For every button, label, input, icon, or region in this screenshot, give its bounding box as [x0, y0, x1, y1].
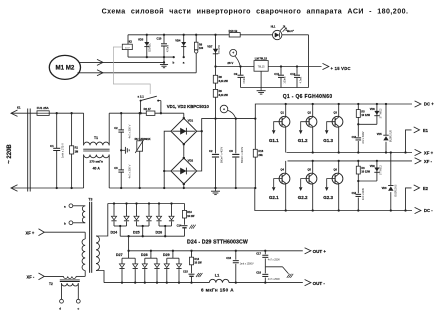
- terminal a: [183, 56, 185, 58]
- wire aux rail: [128, 34, 229, 36]
- svg-text:C9: C9: [234, 72, 238, 76]
- wire VD1 to VD2: [183, 144, 185, 158]
- svg-text:28 V: 28 V: [227, 61, 233, 65]
- svg-text:b: b: [173, 61, 175, 65]
- wire rectifier row2 top: [129, 250, 303, 252]
- wire rectifier row1 top: [108, 203, 185, 205]
- svg-text:R14: R14: [194, 258, 199, 261]
- net E1: [406, 130, 412, 153]
- svg-text:C2: C2: [209, 149, 213, 153]
- svg-text:BU2R10US: BU2R10US: [395, 184, 397, 196]
- test point DC plus: [220, 105, 228, 113]
- svg-text:VD9: VD9: [370, 165, 375, 168]
- svg-text:R1: R1: [75, 146, 79, 150]
- capacitor C12: [296, 65, 298, 67]
- resistor R8 8.2k: [213, 75, 217, 83]
- svg-text:OUT +: OUT +: [313, 249, 327, 254]
- +15VDC output: [323, 63, 329, 69]
- svg-text:T3: T3: [88, 198, 92, 202]
- svg-text:C16: C16: [226, 256, 231, 260]
- svg-text:100: 100: [199, 47, 204, 50]
- wire rectifier mid: [120, 235, 184, 237]
- svg-text:C12: C12: [290, 72, 295, 76]
- diode VD6 clamp: [390, 151, 392, 153]
- svg-text:XF -: XF -: [27, 275, 35, 280]
- svg-text:10 2W: 10 2W: [194, 262, 202, 265]
- svg-text:2n2 x 630V: 2n2 x 630V: [362, 188, 365, 201]
- net XF plus right: [415, 149, 421, 155]
- mains input arrow bottom: [11, 187, 30, 189]
- svg-text:М1 М2: М1 М2: [55, 65, 74, 72]
- svg-text:C8: C8: [229, 149, 233, 153]
- svg-text:~ 220В: ~ 220В: [7, 144, 13, 164]
- svg-text:C10: C10: [157, 37, 162, 41]
- svg-text:Схема силовой части инверторно: Схема силовой части инверторного сварочн…: [102, 8, 409, 16]
- wire 28V line: [214, 65, 216, 67]
- wire bottom bus: [109, 187, 255, 189]
- wire mains to bridge: [109, 112, 146, 114]
- svg-text:G2.3: G2.3: [323, 195, 333, 200]
- svg-text:470mk: 470mk: [167, 44, 170, 52]
- svg-text:Q1 - Q6 FGH40N60: Q1 - Q6 FGH40N60: [283, 94, 333, 100]
- svg-text:C2: C2: [114, 126, 118, 130]
- svg-text:STTH812: STTH812: [381, 108, 383, 119]
- net E2: [406, 188, 412, 211]
- svg-text:20k: 20k: [258, 153, 263, 157]
- wire top mains: [30, 112, 83, 114]
- capacitor C2: [120, 112, 122, 114]
- svg-text:T1: T1: [94, 136, 98, 140]
- rectifier diode col4: [148, 202, 150, 204]
- bridge rectifier VD2: [171, 158, 197, 184]
- capacitor C16: [235, 250, 237, 252]
- transistor Q5: [312, 161, 314, 174]
- terminal b: [173, 56, 175, 58]
- svg-text:C15: C15: [183, 270, 188, 274]
- resistor R14 10 2W: [190, 250, 192, 252]
- svg-text:G1.2: G1.2: [298, 138, 308, 143]
- rectifier diode col6: [170, 202, 172, 204]
- wire XF plus rail: [287, 152, 413, 154]
- earth sideways: [120, 149, 122, 151]
- svg-text:OUT -: OUT -: [313, 281, 326, 286]
- svg-text:+: +: [232, 51, 234, 55]
- resistor R6 10 12W: [357, 160, 359, 162]
- svg-text:G2.2: G2.2: [298, 195, 308, 200]
- svg-text:b: b: [64, 222, 66, 226]
- svg-text:+ 15 VDC: + 15 VDC: [331, 66, 351, 71]
- T3 secondary winding: [96, 236, 99, 271]
- svg-text:10 12W: 10 12W: [361, 171, 370, 174]
- resistor R13 1k: [229, 33, 240, 37]
- svg-text:G1.1: G1.1: [269, 138, 279, 143]
- fuse FU1: [37, 111, 49, 116]
- breaker K1 double line: [27, 109, 29, 192]
- capacitor C8 bus: [235, 117, 237, 119]
- wire bridge DC plus: [197, 119, 256, 132]
- rectifier diode col1: [113, 202, 115, 204]
- relay K2 coil: [127, 35, 129, 44]
- resistor R2 47: [146, 111, 155, 115]
- svg-text:C14: C14: [177, 224, 182, 228]
- svg-text:L1: L1: [215, 274, 219, 278]
- wire DC minus drop: [255, 188, 412, 211]
- transistor Q2: [312, 103, 314, 105]
- wire bottom mains: [30, 187, 83, 189]
- resistor R5 10 12W: [357, 103, 359, 105]
- svg-text:VD7: VD7: [207, 45, 213, 49]
- svg-text:XF +: XF +: [26, 230, 35, 235]
- svg-text:d: d: [59, 307, 61, 311]
- svg-text:4,7mk: 4,7mk: [300, 76, 303, 83]
- bridge rectifier VD1: [183, 113, 185, 118]
- svg-text:40 А: 40 А: [93, 166, 101, 170]
- rectifier pair D28: [150, 250, 152, 252]
- svg-text:2n2 x 630V: 2n2 x 630V: [362, 131, 365, 144]
- rectifier pair D29: [172, 250, 174, 252]
- ground primary: [214, 187, 216, 189]
- motor M1 M2: [49, 55, 80, 79]
- net XF minus right: [415, 158, 421, 164]
- svg-text:1mk x 275 V: 1mk x 275 V: [61, 143, 65, 158]
- wire snubber node 1: [358, 123, 377, 125]
- diode VD7: [214, 34, 216, 36]
- rectifier pair D27: [127, 250, 129, 252]
- ground regulator: [241, 87, 309, 89]
- svg-text:R16: R16: [258, 149, 263, 153]
- svg-text:6 мкГн 150 А: 6 мкГн 150 А: [201, 287, 234, 292]
- svg-text:VD8: VD8: [370, 108, 375, 111]
- wire output bus: [104, 282, 209, 284]
- svg-text:HL1: HL1: [271, 26, 276, 29]
- capacitor C10: [163, 34, 165, 36]
- rectifier diode col5: [158, 202, 160, 204]
- inductor L1: [209, 279, 229, 282]
- svg-text:D24 - D29 STTH6003CW: D24 - D29 STTH6003CW: [187, 240, 248, 246]
- svg-text:К2: К2: [129, 39, 133, 43]
- svg-text:RU 14D391K: RU 14D391K: [135, 137, 151, 141]
- resistor R9 8.2k: [213, 89, 217, 97]
- svg-text:D24: D24: [111, 231, 118, 235]
- svg-text:D26: D26: [156, 231, 163, 235]
- svg-text:VD1, VD2 KBPC5010: VD1, VD2 KBPC5010: [167, 104, 210, 109]
- svg-text:DC +: DC +: [424, 102, 434, 107]
- chassis mid caps: [265, 266, 282, 268]
- net OUT minus: [305, 280, 311, 286]
- wire XF minus rail: [288, 160, 413, 162]
- svg-text:4n7 x 250 V: 4n7 x 250 V: [127, 124, 131, 138]
- svg-text:DC -: DC -: [424, 208, 433, 213]
- svg-text:BYD255: BYD255: [218, 44, 221, 54]
- wire AC2 to bridges: [164, 131, 171, 188]
- svg-text:VD1: VD1: [188, 119, 194, 123]
- resistor R6: [195, 34, 197, 36]
- svg-text:"Вкл": "Вкл": [286, 29, 295, 33]
- diode VD3: [146, 34, 148, 36]
- svg-text:G2.1: G2.1: [269, 195, 279, 200]
- svg-text:R13 1k: R13 1k: [229, 29, 238, 33]
- wire LED return: [308, 35, 310, 88]
- svg-text:C17: C17: [256, 252, 261, 256]
- wire relay ground: [128, 56, 174, 58]
- svg-text:BZV85C: BZV85C: [149, 43, 152, 52]
- svg-text:D28: D28: [141, 253, 148, 257]
- varistor RU: [139, 112, 141, 114]
- svg-text:8,2k 2W: 8,2k 2W: [219, 80, 229, 83]
- svg-text:C1: C1: [50, 144, 54, 148]
- capacitor C9: [239, 65, 241, 67]
- svg-text:G1.3: G1.3: [323, 138, 333, 143]
- rectifier diode col3: [135, 202, 137, 204]
- svg-text:100mk: 100mk: [284, 76, 287, 84]
- svg-text:4n7 x 250 V: 4n7 x 250 V: [127, 164, 131, 178]
- svg-text:4n7 x 250V: 4n7 x 250V: [268, 278, 281, 281]
- capacitor C15 snubber out: [184, 218, 186, 225]
- svg-text:R2 47: R2 47: [144, 107, 152, 111]
- svg-text:T2: T2: [49, 282, 53, 286]
- svg-text:1mk x 1500V: 1mk x 1500V: [240, 262, 254, 265]
- svg-text:VD4: VD4: [175, 38, 181, 42]
- diode VD9: [376, 160, 378, 162]
- svg-text:C18: C18: [256, 271, 261, 275]
- svg-text:D27: D27: [116, 253, 123, 257]
- transistor Q6: [338, 161, 340, 174]
- svg-text:10 2W: 10 2W: [187, 215, 195, 218]
- svg-text:LM 78L15: LM 78L15: [255, 56, 268, 60]
- net OUT plus: [305, 248, 311, 254]
- svg-text:E1: E1: [423, 128, 429, 133]
- svg-text:1M: 1M: [75, 150, 79, 154]
- svg-text:24 V: 24 V: [125, 48, 130, 50]
- test point 28V: [230, 49, 237, 56]
- svg-text:E2: E2: [423, 186, 429, 191]
- capacitor C13 snubber: [357, 124, 359, 137]
- mains input arrow top: [11, 112, 30, 114]
- svg-text:STTH812: STTH812: [381, 164, 383, 175]
- wire VD2 bottom: [183, 184, 185, 188]
- capacitor C2 bus: [214, 117, 216, 119]
- svg-text:560mF x 400V: 560mF x 400V: [221, 147, 224, 164]
- row1 pair joins: [114, 225, 127, 227]
- svg-text:470mk: 470mk: [243, 76, 246, 84]
- resistor R16 20k: [254, 117, 256, 119]
- svg-text:VD5: VD5: [377, 133, 382, 136]
- svg-text:VD6: VD6: [382, 187, 387, 190]
- capacitor C15: [191, 265, 193, 273]
- svg-text:C14: C14: [352, 192, 357, 195]
- resistor R1: [70, 112, 72, 114]
- svg-text:560mF x 400V: 560mF x 400V: [241, 147, 244, 164]
- svg-text:XF +: XF +: [424, 151, 434, 156]
- svg-text:к 2.1: к 2.1: [138, 94, 145, 98]
- wire fan top: [79, 61, 165, 63]
- diode VD8: [376, 103, 378, 105]
- capacitor C17: [264, 250, 266, 252]
- svg-text:VD2: VD2: [188, 159, 194, 163]
- wire snubber node 2: [358, 180, 377, 182]
- capacitor C18: [264, 267, 266, 274]
- net DC plus: [415, 101, 421, 107]
- svg-text:C3: C3: [114, 166, 118, 170]
- transistor Q3: [338, 103, 340, 105]
- svg-text:D29: D29: [163, 253, 170, 257]
- svg-text:XF -: XF -: [424, 159, 433, 164]
- transistor Q4: [285, 161, 287, 174]
- diode VD5 clamp: [385, 103, 387, 105]
- capacitor C14 snubber: [357, 181, 359, 193]
- svg-text:К1: К1: [17, 106, 21, 110]
- transistor Q1: [285, 103, 287, 105]
- T3 aux winding a-b: [69, 204, 73, 208]
- capacitor C1: [56, 112, 58, 114]
- svg-text:10 12W: 10 12W: [361, 114, 370, 117]
- T3 primary winding: [84, 232, 86, 239]
- rectifier diode col2: [125, 202, 127, 204]
- resistor R13 10 2W: [184, 204, 186, 211]
- net DC minus: [415, 207, 421, 213]
- diode VD4: [183, 34, 185, 36]
- svg-text:78L15: 78L15: [258, 65, 266, 68]
- svg-text:C11: C11: [274, 72, 279, 76]
- svg-text:4n7 x 250V: 4n7 x 250V: [268, 259, 281, 262]
- svg-text:8,2k 2W: 8,2k 2W: [219, 94, 229, 97]
- wire DC plus riser: [255, 104, 412, 119]
- capacitor C11: [280, 65, 282, 67]
- svg-text:R13: R13: [187, 211, 192, 214]
- svg-text:+: +: [223, 108, 225, 112]
- svg-text:BU2R10US: BU2R10US: [391, 130, 393, 142]
- wire fan bottom: [78, 72, 197, 74]
- svg-text:D25: D25: [133, 231, 140, 235]
- svg-text:270 мкГн: 270 мкГн: [89, 159, 103, 163]
- capacitor C3: [120, 150, 122, 170]
- svg-text:FU1 25A: FU1 25A: [37, 106, 50, 110]
- svg-text:C13: C13: [352, 136, 357, 139]
- ground fan: [163, 61, 165, 63]
- link relay to contact K2.1: [113, 47, 150, 94]
- svg-text:VD3: VD3: [138, 38, 144, 42]
